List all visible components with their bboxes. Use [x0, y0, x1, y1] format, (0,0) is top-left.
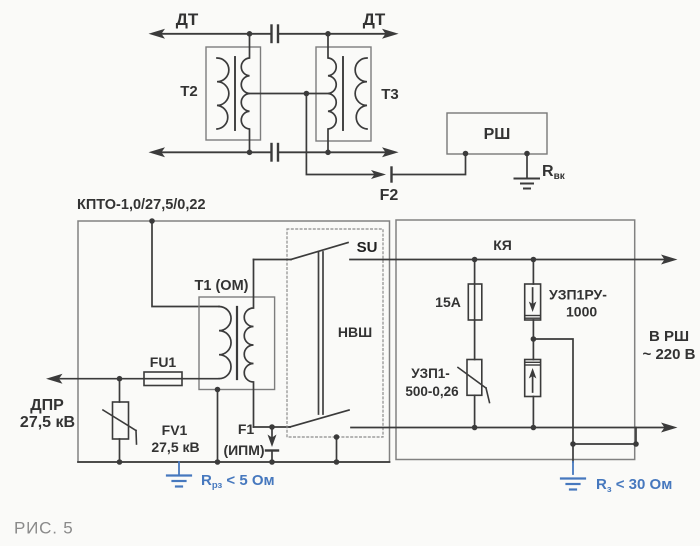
transformer T2 box [206, 47, 261, 140]
wire: SU hinge side [254, 259, 292, 261]
svg-text:Т2: Т2 [180, 83, 198, 100]
svg-text:Т3: Т3 [381, 86, 399, 103]
wire: top 220V line [350, 259, 668, 261]
node: arrester chain bottom [531, 425, 537, 431]
T1 core [236, 307, 238, 379]
svg-text:Т1 (ОМ): Т1 (ОМ) [195, 278, 249, 294]
svg-text:НВШ: НВШ [338, 324, 372, 340]
svg-text:УЗП1-: УЗП1- [411, 366, 450, 381]
surge protector UZP1RU top (down arrow) [532, 260, 534, 285]
arrow right of bottom DT line [382, 147, 399, 157]
arrow left of bottom DT line [149, 147, 166, 157]
svg-text:SU: SU [357, 239, 378, 256]
wire: down from center tap to F2 [306, 94, 377, 175]
wire: bottom 220V line [351, 427, 668, 429]
svg-text:27,5 кВ: 27,5 кВ [20, 414, 75, 431]
wire: FU1 to T1 [182, 378, 219, 380]
node: T1 tap on ground bus [215, 459, 221, 465]
dashed box NVSh busbar section [287, 229, 383, 437]
arrow right of top DT line [382, 29, 399, 39]
svg-text:Rвк: Rвк [542, 163, 566, 182]
wire: NVSh link to ground bus [336, 437, 338, 462]
svg-text:В РШ: В РШ [649, 328, 689, 345]
F2 contact bar [390, 168, 392, 182]
wire: from top edge to T1 primary [152, 221, 219, 307]
T1 primary winding [219, 307, 231, 379]
T1 secondary winding [244, 260, 253, 428]
wire: top DT line right segment [279, 33, 388, 35]
svg-text:КПТО-1,0/27,5/0,22: КПТО-1,0/27,5/0,22 [77, 197, 206, 213]
wire: between arresters [532, 320, 534, 360]
wire: RSh right terminal to ground [526, 154, 528, 178]
box RSh [447, 113, 547, 154]
F1 arrow down [271, 427, 273, 438]
T2 primary winding [217, 58, 229, 129]
svg-text:500-0,26: 500-0,26 [405, 384, 459, 399]
fuse 15A [474, 260, 476, 285]
svg-text:ДПР: ДПР [30, 397, 64, 414]
wire: F2 to RSh box [392, 154, 466, 175]
capacitor C-bottom bars [270, 144, 272, 161]
surge protector UZP1RU bottom (up arrow) [525, 360, 541, 397]
arrow top right [661, 255, 678, 265]
node: fuse chain bottom [472, 425, 478, 431]
ground Rvk [515, 179, 540, 189]
node: F1 junction [269, 424, 275, 430]
T3 primary winding [328, 34, 336, 153]
box KPTO cabinet [78, 221, 390, 462]
svg-text:1000: 1000 [566, 304, 597, 320]
node: RSh right terminal [524, 151, 530, 157]
node: FV1 top junction [117, 376, 123, 382]
svg-text:27,5 кВ: 27,5 кВ [151, 439, 199, 455]
node: ground drop corner [570, 441, 576, 447]
wire: F1 bar to ground bus [271, 451, 273, 463]
svg-text:РШ: РШ [484, 126, 511, 143]
svg-text:F1: F1 [238, 421, 255, 437]
svg-text:FU1: FU1 [150, 354, 177, 370]
svg-text:ДТ: ДТ [363, 10, 386, 29]
ground Rz (blue) [561, 479, 585, 490]
T3 core [342, 57, 344, 130]
arrester FV1 [119, 379, 121, 402]
arrester UZP1-500-0,26 [467, 360, 482, 396]
T3 secondary winding [355, 58, 367, 129]
svg-text:ДТ: ДТ [176, 10, 199, 29]
node: F1 on ground bus [269, 459, 275, 465]
wire: fuse to UZP1 [474, 320, 476, 360]
node: T2 bottom junction [247, 150, 253, 156]
node: NVSh box bottom link top [334, 434, 340, 440]
wire: stem to ground Rz [572, 444, 574, 462]
node: T3 top junction [325, 31, 331, 37]
svg-text:Rз < 30 Ом: Rз < 30 Ом [596, 476, 672, 495]
wire: KPTO bottom ground bus (dark) [78, 461, 390, 463]
node: T1 bottom tap on box edge [215, 387, 221, 393]
node: NVSh link on ground bus [334, 459, 340, 465]
node: FV1 bottom junction [117, 459, 123, 465]
arrow to F2 contact [371, 170, 386, 179]
wire: center tap between T2 and T3 [250, 93, 329, 95]
fuse FU1 [144, 372, 182, 386]
svg-text:КЯ: КЯ [493, 237, 512, 253]
svg-text:УЗП1РУ-: УЗП1РУ- [549, 287, 607, 303]
F1 contact bar [266, 449, 278, 451]
transformer T3 box [316, 47, 371, 141]
node: center tap junction [304, 91, 310, 97]
arrow bottom right [661, 423, 678, 433]
svg-text:F2: F2 [380, 187, 399, 204]
node: ground link right [633, 441, 639, 447]
T2 secondary winding [241, 34, 249, 153]
node: arrester chain top [531, 257, 537, 263]
switch SU blade [291, 243, 348, 260]
wire: T1 secondary bottom to F1/switch [254, 426, 291, 428]
node: junction on KPTO top edge [149, 218, 155, 224]
T2 core [234, 57, 236, 130]
svg-text:15А: 15А [435, 294, 461, 310]
busbar lines [318, 252, 320, 414]
switch lower blade [290, 410, 349, 427]
svg-text:~ 220 В: ~ 220 В [643, 346, 696, 363]
node: T3 bottom junction [325, 150, 331, 156]
svg-text:FV1: FV1 [162, 422, 188, 438]
transformer T1 box [199, 297, 275, 390]
wire: bottom DT line left segment [160, 151, 270, 153]
wire: DPR feeder line [60, 378, 144, 380]
wire: T1 tap to ground bus [217, 390, 219, 463]
arrow left of top DT line [149, 29, 166, 39]
node: RSh left terminal [463, 151, 469, 157]
svg-text:РИС. 5: РИС. 5 [14, 519, 74, 538]
wire: ground link to bottom line [573, 428, 636, 445]
arrow DPR (left) [46, 374, 63, 384]
node: arrester midpoint [531, 336, 537, 342]
ground Rrz (blue) [178, 462, 180, 474]
node: fuse chain top [472, 257, 478, 263]
wire: bottom DT line right segment [279, 151, 388, 153]
capacitor C-top bars [270, 26, 272, 43]
box KYa cabinet [396, 220, 635, 460]
wire: midpoint to ground drop [533, 339, 573, 444]
node: T2 top junction [247, 31, 253, 37]
svg-text:Rрз < 5 Ом: Rрз < 5 Ом [201, 472, 275, 491]
svg-text:(ИПМ): (ИПМ) [223, 442, 264, 458]
wire: top DT line left segment [160, 33, 270, 35]
